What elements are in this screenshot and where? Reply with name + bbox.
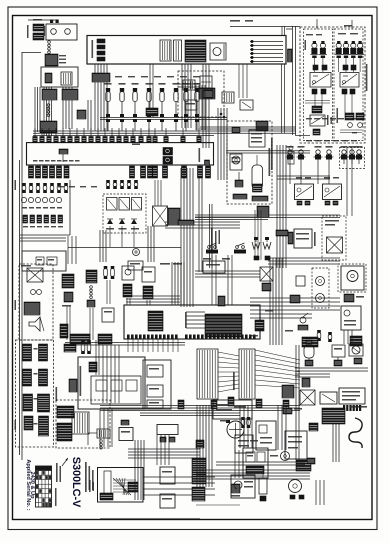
switch S2 bbox=[119, 83, 126, 131]
speaker circle bbox=[232, 156, 240, 164]
left cluster ovals bbox=[21, 197, 61, 202]
conn blob LL bbox=[57, 406, 74, 418]
radio pins 1 bbox=[233, 194, 247, 199]
title S300LC-V bbox=[70, 457, 82, 508]
svg-text:2430 & Up: 2430 & Up bbox=[29, 471, 35, 499]
text box Q6 bbox=[339, 388, 365, 404]
marks switches bbox=[203, 258, 230, 260]
wire mid connect bbox=[68, 236, 76, 264]
diode d1 bbox=[107, 219, 113, 224]
start relay R1 box bbox=[46, 24, 77, 40]
fan unit box bbox=[341, 306, 361, 330]
ctrl sq 2 bbox=[147, 385, 163, 397]
relay r2 bbox=[119, 198, 130, 211]
component T in box2 bbox=[59, 149, 68, 162]
comp col3 chain bbox=[87, 286, 95, 307]
junction dots bbox=[220, 113, 225, 118]
connector above panel 15 bbox=[131, 128, 135, 143]
left cluster lower bbox=[23, 215, 63, 223]
relay r1 bbox=[107, 198, 118, 211]
washer motor circle 1 bbox=[316, 277, 325, 286]
comp right q7b bbox=[160, 467, 175, 484]
washer pump hatch box bbox=[97, 429, 110, 449]
pump top box bbox=[213, 400, 252, 419]
wiper mesh bbox=[113, 478, 136, 495]
comp q8 top2 bbox=[350, 406, 367, 408]
wire trunk right-mid bbox=[277, 145, 286, 268]
speaker symbol bbox=[29, 317, 44, 331]
sender right comp bbox=[288, 146, 294, 164]
dark cluster Q6 bbox=[302, 337, 318, 347]
wire panel inner bus2 bbox=[340, 130, 362, 133]
marks q5 row bbox=[160, 263, 182, 265]
cassette cylinder bbox=[252, 155, 263, 192]
conn bar A2 bbox=[39, 344, 48, 361]
wire left trunk 2 bbox=[19, 160, 21, 300]
wire bus C bbox=[200, 127, 296, 129]
controller box tall bbox=[143, 360, 171, 409]
connector below panel 13 bbox=[198, 166, 203, 178]
wire q8 right verticals bbox=[316, 480, 324, 505]
wire bus q8 up bbox=[216, 462, 305, 465]
wire fuses to relays R bbox=[339, 57, 360, 72]
wire into MCU left bbox=[126, 296, 180, 302]
label machine harness (vertical) bbox=[269, 148, 271, 176]
relay r3 bbox=[132, 198, 142, 211]
wire long left vertical bbox=[88, 100, 91, 130]
panel pin pair 1 bbox=[97, 39, 105, 43]
wire bus step1 bbox=[226, 151, 310, 153]
label radio (vertical) bbox=[271, 138, 273, 170]
panel right tab bbox=[288, 49, 293, 62]
comp in box bl2 bbox=[47, 257, 57, 265]
wire panel-fuse join bbox=[178, 84, 200, 87]
MCU pins bottom bbox=[127, 335, 178, 339]
label right of K3 bbox=[327, 115, 332, 125]
wire into cluster bbox=[100, 409, 112, 447]
wire bus step2 bbox=[195, 217, 268, 220]
wire fusepanel labels2 bbox=[306, 140, 357, 141]
switch S6 bbox=[173, 83, 180, 131]
pin column L bbox=[197, 349, 218, 399]
label option box bbox=[21, 265, 31, 267]
box heater bbox=[294, 229, 312, 248]
wire q5 col4 down bbox=[127, 298, 130, 305]
wire bus q7 low bbox=[143, 477, 215, 495]
MCU box bbox=[124, 305, 260, 339]
MCU top pin bar bbox=[218, 296, 225, 306]
wire bus Q6 upper bbox=[195, 271, 260, 277]
wiper inner rail bbox=[104, 471, 111, 494]
connector above panel 3 bbox=[47, 128, 51, 143]
cluster inner box bbox=[91, 376, 141, 404]
label C11 top bbox=[132, 144, 140, 146]
relay box M2 bbox=[323, 184, 342, 200]
connector above panel 6 bbox=[68, 128, 72, 143]
wire q5 col3 down bbox=[90, 308, 93, 340]
indicator twin block bbox=[163, 148, 173, 165]
wire relays down L bbox=[315, 94, 322, 106]
connector above panel 14 bbox=[124, 128, 128, 143]
junction marks q3 bbox=[178, 220, 194, 225]
connector dark q3r bbox=[168, 208, 180, 225]
comp q5 small bbox=[102, 308, 114, 322]
marks under W bbox=[254, 256, 270, 260]
connector block CN-24 bbox=[42, 89, 57, 100]
wire spine 1 bbox=[21, 300, 23, 460]
switch S1 bbox=[105, 83, 112, 131]
conn cluster q8 bbox=[322, 408, 345, 424]
comp col2 hatch bbox=[62, 274, 74, 288]
conn marks col bbox=[34, 348, 38, 425]
coil chain bbox=[48, 41, 51, 54]
fuse F6 bbox=[356, 41, 364, 58]
connector above panel 18 bbox=[153, 128, 157, 143]
wire senders join bbox=[277, 176, 330, 179]
connector below panel 1 bbox=[29, 166, 34, 178]
marks below M2 bbox=[325, 201, 338, 205]
cluster blob left bbox=[69, 379, 77, 392]
wire relays down R bbox=[345, 94, 352, 113]
comp q8 top1 bbox=[283, 408, 302, 414]
connector below panel 12 bbox=[182, 166, 187, 178]
ctrl sq 3 bbox=[147, 400, 163, 408]
connector below panel 4 bbox=[50, 166, 55, 178]
q8 mid inner 2 bbox=[257, 452, 265, 462]
connector below panel 3 bbox=[43, 166, 48, 178]
label scatter q6 bbox=[250, 310, 293, 337]
circle comp q8 bbox=[289, 480, 305, 500]
connector below panel 11 bbox=[163, 166, 168, 178]
label C11 row bbox=[33, 160, 80, 162]
wire mesh center bbox=[165, 222, 240, 228]
radio unit box bbox=[249, 130, 265, 147]
wire bus page mid2 bbox=[140, 413, 240, 416]
terminal strip rows bbox=[250, 40, 283, 62]
wire bundle panel right2 bbox=[203, 64, 209, 148]
coil spiral bbox=[349, 418, 362, 448]
gauge window 1 bbox=[160, 40, 171, 61]
wire left join top bbox=[22, 20, 56, 53]
panel bottom marks bbox=[313, 129, 357, 135]
connector CN-22 (hatched) bbox=[33, 33, 44, 40]
conn bar B2 bbox=[39, 369, 48, 386]
fuse q8 pair bbox=[241, 417, 250, 428]
connector below panel 5 bbox=[57, 166, 62, 178]
circle q8 small bbox=[281, 452, 290, 461]
note arrow bbox=[62, 458, 68, 466]
circles comp bbox=[31, 290, 42, 295]
connector CN-50 bbox=[232, 127, 240, 133]
hour meter box bbox=[341, 266, 364, 290]
wiper pins bbox=[100, 493, 113, 500]
wire bundle below panel bbox=[95, 64, 107, 131]
wire mid verticals2 bbox=[100, 230, 106, 262]
wire bus q7 bbox=[128, 449, 200, 458]
label right of heater bbox=[314, 232, 316, 246]
connector above panel 4 bbox=[54, 128, 58, 143]
crossing wires bbox=[218, 352, 239, 392]
wire bus mesh 2 bbox=[250, 314, 312, 318]
dashed box lower-left 2 bbox=[56, 400, 110, 448]
wire q6 small verts bbox=[344, 330, 352, 344]
battery relay box bbox=[41, 67, 78, 87]
comp mid drop bbox=[146, 108, 158, 116]
wire bus Q6 low bbox=[295, 368, 368, 371]
fan circle unit bbox=[349, 344, 363, 356]
connector above panel 8 bbox=[82, 128, 86, 143]
connector below panel 6 bbox=[64, 166, 69, 178]
marks under hourmeter bbox=[344, 294, 364, 302]
connector dark P1 bbox=[312, 106, 322, 113]
serial number table bbox=[36, 466, 52, 507]
wire mid verticals bbox=[148, 226, 154, 262]
wire under MCU bus bbox=[65, 343, 185, 346]
cigar relay bbox=[27, 268, 43, 282]
relay coil circle 1 bbox=[51, 29, 57, 35]
marks above K1 bbox=[313, 65, 327, 70]
label inside box2 (vertical) bbox=[199, 148, 201, 162]
title 2430up bbox=[29, 471, 35, 499]
relay K2 box bbox=[340, 73, 359, 88]
wire bus q8 bbox=[196, 470, 310, 479]
marks below M1 bbox=[297, 201, 310, 205]
sender plug 5 bbox=[340, 146, 349, 164]
connector above panel 9 bbox=[89, 128, 93, 143]
wire q4 left verticals bbox=[196, 85, 205, 130]
wire bus to panel bbox=[293, 26, 296, 135]
wire box1 up bbox=[282, 26, 285, 133]
wire q5 col5 down bbox=[147, 300, 150, 305]
antenna comp bbox=[235, 172, 243, 187]
switch S7 bbox=[183, 83, 190, 131]
label col mid bbox=[211, 228, 220, 251]
fuse panel inner dash 1 bbox=[304, 29, 333, 141]
connector CN-21 (hatched) bbox=[33, 24, 44, 31]
wire into panel top bbox=[317, 19, 352, 29]
MCU dark block 1 bbox=[148, 311, 163, 331]
wire bundle battery down-mid bbox=[44, 87, 52, 136]
battery relay inner contacts bbox=[45, 72, 72, 85]
center fuse caps bbox=[106, 180, 138, 189]
comp bottom mid bbox=[203, 261, 225, 273]
wire verticals q8 mid2 bbox=[278, 405, 286, 450]
wire fuses to relays L bbox=[314, 57, 323, 72]
component in D1 bbox=[185, 100, 197, 110]
wire diodes down bbox=[110, 226, 134, 247]
diode circle 2 bbox=[358, 123, 363, 128]
margin zone labels bbox=[15, 180, 17, 430]
sender plug 4 bbox=[325, 146, 334, 164]
left cluster marks bbox=[22, 207, 62, 209]
label panel vert bbox=[337, 64, 368, 123]
label cluster (vertical) bbox=[80, 366, 82, 396]
connector in D1 bbox=[203, 90, 213, 98]
fuse F3 bbox=[335, 41, 343, 58]
comp Q6 small3 bbox=[255, 320, 264, 331]
connector CN-31 bbox=[199, 88, 215, 99]
pin row under text box bbox=[343, 405, 361, 411]
wire bus page mid bbox=[100, 406, 300, 411]
ctrl sq 1 bbox=[147, 365, 163, 377]
wiper assembly box bbox=[98, 468, 144, 503]
wire trunk q8 left bbox=[197, 405, 212, 487]
switch S3 bbox=[132, 83, 139, 131]
wire bottom connect bbox=[100, 518, 200, 520]
wire q5 verticals2 bbox=[96, 340, 99, 375]
wire spine 2 bbox=[19, 300, 21, 455]
wire bus A bbox=[100, 118, 227, 120]
label MCU conn (vertical) bbox=[233, 372, 235, 390]
wiper marks right bbox=[128, 482, 138, 492]
wire fan bbox=[255, 350, 300, 388]
comp right q7 bbox=[157, 425, 178, 443]
marks under row bbox=[305, 358, 362, 366]
switch panel box bbox=[27, 143, 214, 165]
diode D1 box bbox=[200, 76, 212, 88]
comp q3 bottom bbox=[128, 261, 143, 270]
wire q3 horiz small bbox=[20, 238, 66, 241]
panel pin pair 4 bbox=[97, 57, 105, 61]
comp col4 bbox=[122, 266, 134, 297]
switch S5 bbox=[159, 83, 166, 131]
comp Q6 small2 bbox=[290, 295, 300, 303]
vert trunk mid2 bbox=[210, 204, 213, 268]
panel pin pair 3 bbox=[97, 51, 105, 55]
temp unit box bbox=[332, 345, 345, 366]
cluster box left bbox=[78, 357, 145, 409]
fuel pump box bbox=[231, 475, 255, 498]
connector above panel 7 bbox=[75, 128, 79, 143]
sender plug 6 bbox=[348, 146, 357, 164]
q8 mid inner 1 bbox=[246, 452, 255, 462]
wire mesh MCU right bbox=[186, 312, 205, 328]
conn strips under MCU bbox=[70, 334, 112, 344]
engine conn stack bbox=[192, 458, 206, 484]
component small box bbox=[222, 92, 234, 103]
marks below K2 bbox=[342, 89, 355, 94]
comp q8 bl bbox=[231, 484, 240, 497]
conn bar C2 bbox=[38, 394, 50, 412]
connector above panel 12 bbox=[110, 128, 114, 143]
wire bundle battery down-left bbox=[35, 87, 40, 132]
label MCU right bbox=[185, 312, 187, 328]
resistor R10 bbox=[183, 80, 195, 90]
connector above panel 19 bbox=[164, 128, 168, 143]
washer motor circle 2 bbox=[316, 294, 325, 303]
wire q8 bottom verticals bbox=[235, 450, 243, 478]
marks under pin columns bbox=[178, 397, 289, 409]
labels under relays bbox=[106, 228, 139, 230]
wire bottom mid horiz bbox=[196, 504, 240, 506]
wire bus q3 bottom bbox=[68, 247, 181, 249]
box q8 r bbox=[285, 431, 307, 459]
switch S4 bbox=[146, 83, 153, 131]
box Q3-bottomleft bbox=[22, 251, 66, 271]
connector above panel 13 bbox=[117, 128, 121, 143]
comp col2 marks bbox=[62, 292, 73, 307]
vertical sym q8 bbox=[259, 470, 267, 501]
connector above panel 11 bbox=[103, 128, 107, 143]
label scatter mid bbox=[58, 186, 97, 187]
MCU pins bottom2 bbox=[185, 335, 256, 339]
lamp W2 bbox=[263, 237, 271, 249]
horn circle bbox=[133, 249, 140, 256]
wire q5 verticals bbox=[103, 345, 119, 403]
left cluster labels bbox=[23, 226, 63, 227]
conn bar D1 bbox=[24, 416, 33, 430]
toggle switch SW1 bbox=[206, 243, 218, 254]
radio dashed box bbox=[227, 121, 272, 204]
option dashed box bbox=[19, 264, 53, 340]
connector block CN-23 bbox=[45, 54, 58, 66]
junction box small bbox=[77, 110, 86, 119]
comp in box bl1 bbox=[36, 257, 44, 265]
relay K3 box bbox=[310, 115, 325, 126]
comp col5 bbox=[142, 267, 155, 299]
sender plug 1 bbox=[286, 146, 295, 164]
conn bar A1 bbox=[23, 344, 32, 361]
wire bus mid extend bbox=[195, 215, 340, 218]
tiny text col right bbox=[85, 462, 94, 492]
fuse F4 bbox=[342, 41, 350, 58]
conn bar C1 bbox=[23, 394, 33, 411]
connector above panel 5 bbox=[61, 128, 65, 143]
gauge circle bbox=[226, 420, 244, 438]
comp at box2 right bbox=[205, 160, 210, 165]
left col marks q5 bbox=[60, 324, 68, 338]
marks above M1 bbox=[296, 177, 311, 179]
marks above M2 bbox=[324, 177, 339, 179]
fuse pair q5 bbox=[104, 266, 115, 279]
wire fusepanel labels bbox=[306, 118, 360, 119]
wire trunk center bbox=[218, 108, 227, 180]
pin column R bbox=[239, 349, 255, 399]
conn bar B1 bbox=[23, 369, 32, 386]
comp q8 last bbox=[307, 458, 315, 464]
label fusible link bbox=[27, 19, 42, 38]
left cluster top row bbox=[22, 183, 68, 193]
wire left cluster bound bbox=[20, 180, 70, 235]
diode circle 1 bbox=[348, 123, 353, 128]
connector above panel 16 bbox=[139, 128, 143, 143]
cluster fuse above bbox=[81, 340, 91, 354]
label lighter bbox=[325, 220, 339, 226]
wire verticals q8 mid bbox=[240, 405, 252, 448]
toggle switch SW2 bbox=[234, 243, 246, 254]
label scatter q8 bbox=[220, 420, 278, 457]
lamp W1 bbox=[252, 237, 260, 249]
connector block CN-25 bbox=[40, 121, 57, 133]
svg-text:S300LC-V: S300LC-V bbox=[70, 457, 82, 508]
dark cluster q8 r bbox=[296, 460, 311, 471]
terminal marks bbox=[59, 55, 66, 63]
connector below panel 10 bbox=[153, 166, 158, 178]
wire verticals q8 rr bbox=[333, 424, 339, 462]
comp q8 a bbox=[256, 421, 276, 450]
wire panel inner bus bbox=[295, 101, 330, 136]
cluster marks above bbox=[64, 344, 76, 352]
switch S8 bbox=[194, 83, 201, 131]
sender plug 7 bbox=[355, 146, 364, 164]
wire q5 fusepair down bbox=[107, 280, 110, 304]
wire lighter drops bbox=[347, 148, 352, 216]
wire left trunk 1 bbox=[21, 52, 23, 300]
connector CN-32 bbox=[256, 121, 268, 131]
wire verticals q8 r bbox=[296, 345, 299, 460]
gauge window 2 bbox=[174, 40, 182, 61]
lighter box bbox=[327, 237, 343, 253]
